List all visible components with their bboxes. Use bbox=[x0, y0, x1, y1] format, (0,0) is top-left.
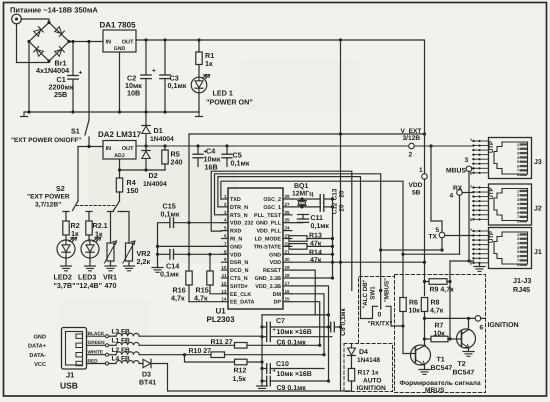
wire VCC to auto ignition bbox=[151, 364, 352, 392]
svg-text:4,7к: 4,7к bbox=[194, 294, 208, 303]
svg-text:VDD_PLL: VDD_PLL bbox=[256, 229, 281, 235]
svg-text:470: 470 bbox=[105, 281, 117, 290]
wire R16 to pin14 bbox=[189, 301, 222, 303]
wire V_EXT rail bbox=[136, 145, 474, 147]
svg-text:R7: R7 bbox=[435, 323, 444, 330]
svg-text:RX: RX bbox=[453, 185, 463, 192]
svg-text:+: + bbox=[273, 328, 276, 334]
svg-text:IN: IN bbox=[106, 40, 112, 46]
switch S1 EXT POWER ON/OFF bbox=[88, 42, 90, 121]
resistor R12 1,5k bbox=[185, 355, 235, 362]
wire pin18 row bbox=[292, 277, 333, 279]
svg-text:8: 8 bbox=[470, 218, 472, 222]
svg-text:19: 19 bbox=[285, 265, 291, 270]
ground at connector pins bbox=[479, 263, 481, 267]
svg-text:R6: R6 bbox=[409, 300, 418, 307]
svg-text:IN: IN bbox=[106, 146, 112, 152]
svg-text:20: 20 bbox=[339, 204, 346, 212]
svg-text:BC547: BC547 bbox=[431, 365, 453, 372]
svg-text:R14: R14 bbox=[309, 250, 322, 257]
svg-text:L4 FB: L4 FB bbox=[112, 356, 131, 363]
connector J2 RJ45 bbox=[489, 184, 532, 225]
svg-text:MBUS: MBUS bbox=[425, 387, 445, 394]
svg-text:2: 2 bbox=[224, 202, 227, 207]
capacitor C11 0,1mk bbox=[292, 222, 303, 224]
U1 left pins 1-14 bbox=[222, 198, 229, 200]
wire jack to bridge top bbox=[21, 19, 49, 23]
resistor R11 27 bbox=[235, 343, 248, 349]
svg-text:LED 1: LED 1 bbox=[213, 89, 233, 98]
svg-text:28: 28 bbox=[285, 194, 291, 199]
wire bridge minus down bbox=[28, 42, 30, 113]
svg-text:14: 14 bbox=[221, 297, 227, 302]
resistor R2.1 1k bbox=[86, 221, 92, 235]
power jack X1 bbox=[12, 14, 22, 24]
svg-text:PLL_TEST: PLL_TEST bbox=[254, 213, 282, 219]
resistor R14 47k bbox=[289, 244, 307, 250]
wire pin7 GND bbox=[158, 245, 229, 247]
svg-text:DM: DM bbox=[273, 292, 282, 298]
wire pin1 TXD route D bbox=[221, 181, 403, 297]
svg-text:"MBUS": "MBUS" bbox=[384, 278, 391, 302]
capacitor C4 bbox=[197, 146, 199, 154]
svg-text:GND_PLL: GND_PLL bbox=[256, 221, 282, 227]
LED2 3,7V bbox=[57, 240, 75, 258]
svg-text:DATA-: DATA- bbox=[29, 353, 46, 359]
svg-text:1N4004: 1N4004 bbox=[150, 136, 174, 143]
diode D2 1N4004 bbox=[145, 146, 147, 151]
svg-text:DP: DP bbox=[274, 300, 282, 306]
svg-text:L1 FB: L1 FB bbox=[112, 338, 131, 345]
svg-text:R17 1к: R17 1к bbox=[358, 370, 380, 377]
svg-text:S1: S1 bbox=[71, 127, 80, 136]
svg-text:26: 26 bbox=[285, 210, 291, 215]
svg-text:"RX/TX": "RX/TX" bbox=[368, 321, 393, 328]
svg-text:"EXT POWER: "EXT POWER bbox=[27, 194, 70, 201]
svg-text:SW1: SW1 bbox=[370, 286, 377, 300]
svg-text:+: + bbox=[152, 68, 156, 75]
svg-text:RTS_N: RTS_N bbox=[230, 213, 248, 219]
svg-text:24: 24 bbox=[285, 226, 291, 231]
dashed box SW1 bbox=[359, 277, 395, 344]
wire bridge plus to regulator bbox=[69, 41, 103, 43]
svg-text:R9 4,7к: R9 4,7к bbox=[430, 287, 455, 294]
svg-text:15: 15 bbox=[285, 297, 291, 302]
svg-text:2: 2 bbox=[409, 152, 413, 159]
svg-text:8: 8 bbox=[517, 220, 519, 224]
svg-text:"EXT POWER ON/OFF": "EXT POWER ON/OFF" bbox=[11, 137, 81, 144]
svg-text:C11: C11 bbox=[311, 215, 324, 222]
ferrite bead L2 FB bbox=[116, 352, 139, 355]
capacitor C5 bbox=[226, 146, 228, 154]
svg-text:27: 27 bbox=[285, 202, 291, 207]
svg-text:OUT: OUT bbox=[122, 40, 134, 46]
svg-text:8: 8 bbox=[470, 262, 472, 266]
IC U1 PL2303 bbox=[228, 188, 283, 309]
svg-text:0,1мк: 0,1мк bbox=[168, 81, 187, 90]
wire pin16 DM row bbox=[292, 294, 324, 355]
svg-text:D2: D2 bbox=[149, 171, 158, 180]
svg-text:17: 17 bbox=[285, 281, 291, 286]
svg-text:1N4004: 1N4004 bbox=[143, 181, 167, 188]
svg-text:GREEN: GREEN bbox=[88, 340, 106, 346]
capacitor C7 10mk x16B bbox=[262, 326, 267, 328]
variable resistor VR1 470 bbox=[107, 243, 114, 261]
svg-text:IGNITION: IGNITION bbox=[357, 385, 387, 392]
svg-text:R13: R13 bbox=[309, 233, 322, 240]
svg-text:0,1мк: 0,1мк bbox=[161, 210, 180, 219]
svg-text:TXD: TXD bbox=[230, 197, 241, 203]
svg-text:L2 FB: L2 FB bbox=[112, 347, 131, 354]
svg-text:16: 16 bbox=[285, 289, 291, 294]
svg-text:0,1мк: 0,1мк bbox=[231, 159, 250, 168]
svg-text:4,7к: 4,7к bbox=[430, 308, 444, 315]
LED1 POWER ON bbox=[191, 77, 207, 93]
svg-text:GND: GND bbox=[230, 244, 242, 250]
svg-text:11: 11 bbox=[222, 273, 227, 278]
svg-text:Формирователь сигнала: Формирователь сигнала bbox=[400, 380, 481, 387]
svg-text:USB: USB bbox=[60, 381, 78, 391]
svg-text:RXD: RXD bbox=[230, 229, 241, 235]
wire VDD 5V branch bbox=[340, 40, 342, 390]
wire pin17 row bbox=[292, 286, 329, 381]
svg-text:R8: R8 bbox=[431, 300, 440, 307]
capacitor C10 10mk x16B bbox=[262, 368, 267, 370]
svg-text:PL2303: PL2303 bbox=[207, 315, 236, 324]
svg-text:4x1N4004: 4x1N4004 bbox=[36, 66, 69, 75]
svg-text:C7: C7 bbox=[276, 318, 285, 325]
wire GND column left of chip bbox=[158, 223, 170, 268]
resistor R10 27 bbox=[183, 353, 186, 356]
svg-text:D4: D4 bbox=[359, 349, 368, 356]
svg-text:1,5к: 1,5к bbox=[233, 376, 247, 383]
svg-text:J3: J3 bbox=[534, 159, 542, 166]
svg-text:9: 9 bbox=[224, 257, 227, 262]
ferrite bead L3 FB bbox=[116, 333, 139, 336]
svg-text:150: 150 bbox=[127, 186, 139, 195]
svg-text:6: 6 bbox=[480, 325, 484, 332]
capacitor C15 bbox=[169, 218, 171, 228]
svg-text:VCC: VCC bbox=[34, 362, 46, 368]
svg-text:+: + bbox=[273, 369, 276, 375]
svg-text:EE_DATA: EE_DATA bbox=[230, 300, 254, 306]
svg-text:1: 1 bbox=[419, 167, 423, 174]
USB wires and terminals bbox=[87, 335, 106, 337]
wire IGNITION row bbox=[425, 317, 476, 319]
svg-text:20: 20 bbox=[339, 190, 346, 198]
svg-text:25В: 25В bbox=[54, 90, 67, 99]
svg-text:D3: D3 bbox=[142, 372, 151, 379]
resistor R9 4,7k bbox=[423, 280, 426, 283]
svg-text:VDD_3.3B: VDD_3.3B bbox=[255, 284, 281, 290]
svg-text:TRI-STATE: TRI-STATE bbox=[254, 244, 282, 250]
svg-text:"12,4В": "12,4В" bbox=[76, 281, 102, 290]
svg-text:T2: T2 bbox=[458, 361, 466, 368]
svg-text:+: + bbox=[79, 70, 83, 77]
capacitor C1 bbox=[72, 42, 74, 76]
resistor R6 10k bbox=[400, 298, 406, 312]
svg-text:C10: C10 bbox=[276, 361, 289, 368]
svg-text:1к: 1к bbox=[71, 229, 79, 238]
svg-text:DATA+: DATA+ bbox=[28, 344, 47, 350]
svg-text:DSR_N: DSR_N bbox=[230, 260, 248, 266]
svg-text:4: 4 bbox=[450, 193, 454, 200]
svg-text:TX: TX bbox=[429, 234, 438, 241]
node IGNITION 6 bbox=[475, 316, 481, 322]
svg-text:8: 8 bbox=[517, 263, 519, 267]
ground rail bbox=[24, 111, 199, 113]
diode D1 1N4004 bbox=[145, 112, 147, 126]
resistor R8 4,7k bbox=[421, 298, 427, 312]
svg-text:"ALC DB": "ALC DB" bbox=[362, 279, 369, 308]
svg-text:10мк ×16В: 10мк ×16В bbox=[277, 329, 312, 336]
resistor R15 4,7k bbox=[209, 254, 211, 271]
svg-text:RI_N: RI_N bbox=[230, 237, 242, 243]
svg-text:DTR_N: DTR_N bbox=[230, 205, 248, 211]
svg-text:GND: GND bbox=[34, 335, 46, 341]
svg-text:5: 5 bbox=[224, 226, 227, 231]
svg-text:47к: 47к bbox=[310, 257, 322, 264]
wire pin3 RTS route B bbox=[215, 174, 381, 291]
svg-text:3: 3 bbox=[224, 210, 227, 215]
svg-text:1: 1 bbox=[224, 194, 227, 199]
ferrite bead L1 FB bbox=[116, 342, 139, 345]
svg-text:L3 FB: L3 FB bbox=[112, 328, 131, 335]
svg-text:6: 6 bbox=[224, 234, 227, 239]
wire TXD to RX row bbox=[403, 253, 460, 255]
svg-text:4,7к: 4,7к bbox=[171, 294, 185, 303]
svg-text:AUTO: AUTO bbox=[363, 378, 382, 385]
svg-text:Питание ~14-18В 350мА: Питание ~14-18В 350мА bbox=[10, 6, 98, 15]
svg-text:IGNITION: IGNITION bbox=[488, 322, 519, 329]
ferrite bead L4 FB bbox=[116, 361, 139, 364]
svg-text:0,1мк: 0,1мк bbox=[311, 223, 330, 230]
svg-text:EE_CLK: EE_CLK bbox=[230, 292, 251, 298]
svg-text:WHITE: WHITE bbox=[88, 350, 104, 356]
wire pin15 DP row bbox=[292, 302, 320, 346]
wire pin19 RESET row bbox=[292, 270, 315, 315]
svg-text:1: 1 bbox=[470, 228, 472, 232]
svg-text:GND: GND bbox=[114, 46, 126, 52]
svg-text:OSC_1: OSC_1 bbox=[263, 205, 281, 211]
svg-text:V_EXT: V_EXT bbox=[401, 128, 422, 135]
svg-text:1: 1 bbox=[470, 138, 472, 142]
svg-text:BQ1: BQ1 bbox=[294, 183, 309, 190]
svg-text:GND: GND bbox=[269, 252, 281, 258]
capacitor C13 20 bbox=[319, 195, 321, 204]
resistor R13 47k bbox=[289, 236, 307, 242]
svg-text:RED: RED bbox=[88, 358, 99, 364]
svg-text:5B: 5B bbox=[412, 190, 421, 197]
resistor R4 150 bbox=[116, 178, 122, 192]
svg-text:10: 10 bbox=[221, 265, 227, 270]
resistor R17 1k bbox=[348, 369, 354, 382]
svg-text:OSC_2: OSC_2 bbox=[263, 197, 281, 203]
svg-text:13: 13 bbox=[221, 289, 227, 294]
svg-text:1N4148: 1N4148 bbox=[357, 357, 380, 364]
svg-text:10к: 10к bbox=[434, 330, 446, 337]
diode D3 BT41 bbox=[143, 359, 150, 367]
svg-text:OUT: OUT bbox=[122, 146, 134, 152]
svg-text:1: 1 bbox=[470, 184, 472, 188]
dashed box AUTO IGNITION bbox=[344, 344, 393, 392]
wire 5V rail corner down to VDD node bbox=[424, 40, 425, 174]
resistor R7 10k bbox=[425, 338, 432, 340]
capacitor C12 20 bbox=[319, 203, 321, 212]
wire pin5 RXD route A bbox=[211, 171, 352, 290]
resistor R1 bbox=[198, 40, 200, 52]
svg-text:3: 3 bbox=[465, 157, 469, 164]
svg-text:18: 18 bbox=[285, 273, 291, 278]
LED3 12,4V bbox=[81, 240, 99, 258]
svg-text:VDD: VDD bbox=[409, 182, 423, 189]
wire bus column x332 bbox=[332, 199, 334, 278]
diode D4 1N4148 bbox=[351, 344, 353, 349]
connector J1 RJ45 bbox=[489, 228, 532, 269]
svg-text:J1: J1 bbox=[534, 249, 542, 256]
svg-text:J2: J2 bbox=[534, 206, 542, 213]
svg-text:DCD_N: DCD_N bbox=[230, 268, 249, 274]
svg-text:T1: T1 bbox=[437, 357, 445, 364]
svg-text:20: 20 bbox=[285, 257, 291, 262]
svg-text:DA1 7805: DA1 7805 bbox=[100, 21, 137, 30]
capacitor C8 0,1mk bbox=[330, 322, 332, 332]
svg-text:10к: 10к bbox=[409, 308, 421, 315]
node RX 4 bbox=[459, 195, 461, 254]
capacitor C2 bbox=[145, 40, 147, 75]
svg-text:BC547: BC547 bbox=[453, 370, 475, 377]
dashed box MBUS former bbox=[395, 275, 486, 393]
connector J3 RJ45 bbox=[489, 138, 532, 179]
capacitor C9 0,1mk bbox=[262, 380, 267, 382]
wire pin2 DTR route C bbox=[218, 177, 373, 319]
svg-text:R12: R12 bbox=[234, 368, 247, 375]
svg-text:R10 27: R10 27 bbox=[189, 348, 212, 355]
wire MBUS to R9/T2 bbox=[449, 261, 451, 339]
wire V_EXT to TX bbox=[431, 146, 442, 232]
svg-text:J1: J1 bbox=[66, 371, 74, 380]
svg-text:12МГц: 12МГц bbox=[292, 190, 314, 197]
variable resistor VR2 2,2k bbox=[126, 243, 133, 261]
svg-text:GND_3.3B: GND_3.3B bbox=[255, 276, 281, 282]
resistor R2 1k bbox=[63, 221, 69, 235]
svg-text:16В: 16В bbox=[205, 163, 218, 172]
svg-text:3,7/12В": 3,7/12В" bbox=[35, 202, 61, 209]
svg-text:8: 8 bbox=[470, 172, 472, 176]
wire ground column x262 bbox=[261, 315, 263, 386]
svg-text:BT41: BT41 bbox=[139, 380, 156, 387]
wire MBUS row bbox=[450, 260, 474, 262]
wire TX row bbox=[381, 249, 442, 251]
svg-text:ADJ: ADJ bbox=[114, 153, 124, 159]
svg-text:21: 21 bbox=[285, 249, 291, 254]
svg-text:S2: S2 bbox=[56, 184, 65, 193]
svg-text:VDD: VDD bbox=[230, 252, 241, 258]
svg-text:10В: 10В bbox=[127, 89, 140, 98]
wire 5V rail bbox=[136, 39, 424, 41]
capacitor C14 bbox=[158, 253, 170, 255]
resistor R5 240 bbox=[164, 146, 166, 150]
svg-text:CTS_N: CTS_N bbox=[230, 276, 248, 282]
svg-text:25: 25 bbox=[285, 218, 291, 223]
U1 right pins 28-15 bbox=[283, 198, 292, 200]
svg-text:VDD: VDD bbox=[270, 260, 281, 266]
svg-text:RJ45: RJ45 bbox=[513, 285, 530, 294]
wire VDD down to C15 column bbox=[188, 134, 190, 223]
node MBUS 3 bbox=[466, 166, 472, 172]
wire TX to J1 pin bbox=[445, 235, 474, 237]
svg-text:LD_MODE: LD_MODE bbox=[255, 237, 282, 243]
transistor T1 BC547 bbox=[411, 345, 431, 365]
svg-text:240: 240 bbox=[171, 158, 183, 167]
svg-text:RESET: RESET bbox=[263, 268, 282, 274]
svg-text:SHTD#: SHTD# bbox=[230, 284, 248, 290]
svg-text:"POWER ON": "POWER ON" bbox=[206, 98, 253, 107]
svg-text:0,1мк: 0,1мк bbox=[160, 270, 179, 279]
capacitor C3 bbox=[164, 40, 166, 75]
wire pin21 GND row bbox=[292, 253, 333, 255]
svg-text:3/12B: 3/12B bbox=[403, 135, 421, 142]
svg-text:MBUS: MBUS bbox=[446, 168, 466, 175]
connector J1 USB bbox=[62, 328, 87, 370]
resistor R16 4,7k bbox=[188, 223, 190, 271]
svg-text:8: 8 bbox=[224, 249, 227, 254]
svg-text:C8 0,1мк: C8 0,1мк bbox=[340, 307, 347, 335]
svg-text:D1: D1 bbox=[154, 126, 163, 135]
wire ADJ node bbox=[119, 159, 121, 178]
wire jack to bridge bottom bbox=[17, 24, 50, 63]
capacitor C6 0,1mk bbox=[262, 336, 267, 338]
svg-text:12: 12 bbox=[221, 281, 227, 286]
svg-text:4: 4 bbox=[224, 218, 227, 223]
svg-text:VDD_232: VDD_232 bbox=[230, 221, 253, 227]
svg-text:"3,7В": "3,7В" bbox=[54, 281, 76, 290]
svg-text:2,2к: 2,2к bbox=[137, 257, 151, 266]
svg-text:10мк ×16В: 10мк ×16В bbox=[277, 371, 312, 378]
wire LM317 input bbox=[78, 146, 103, 148]
svg-text:7: 7 bbox=[224, 241, 227, 246]
svg-text:R11 27: R11 27 bbox=[211, 339, 233, 346]
svg-text:BLACK: BLACK bbox=[88, 331, 105, 337]
transistor T2 BC547 bbox=[457, 329, 476, 348]
svg-text:0: 0 bbox=[378, 312, 382, 319]
svg-text:DA2 LM317: DA2 LM317 bbox=[98, 130, 142, 139]
wire 7805 GND to ground rail bbox=[119, 52, 121, 112]
svg-text:1к: 1к bbox=[205, 59, 213, 68]
svg-text:8: 8 bbox=[517, 173, 519, 177]
wire pin20 VDD row bbox=[292, 261, 425, 263]
bridge rectifier Br1 bbox=[29, 23, 69, 62]
svg-text:J1-J3: J1-J3 bbox=[513, 276, 531, 285]
